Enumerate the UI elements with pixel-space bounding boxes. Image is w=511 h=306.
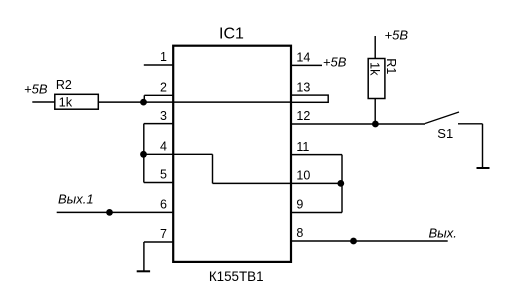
wire +5V down to R1 [374, 36, 376, 59]
switch S1 fixed contact [458, 123, 483, 125]
ground under pin 7 [137, 270, 150, 272]
junction dot on Вых.1 wire [106, 209, 113, 216]
wire R2 to pin 13 bar (through IC, junction with pin 2) [98, 101, 291, 103]
wire bracket joining pins 3,4,5 [143, 124, 145, 183]
svg-text:Вых.1: Вых.1 [58, 192, 94, 207]
svg-text:+5В: +5В [385, 27, 409, 42]
pin 2 [144, 81, 173, 96]
resistor R2 [55, 78, 99, 109]
svg-text:4: 4 [160, 140, 167, 154]
svg-text:S1: S1 [437, 126, 453, 141]
svg-text:R1: R1 [384, 58, 398, 74]
svg-text:1k: 1k [367, 62, 382, 76]
pin 6 [57, 198, 174, 213]
svg-text:+5В: +5В [24, 82, 48, 97]
svg-text:+5В: +5В [323, 54, 347, 69]
junction dot pins 9-10-11 [337, 180, 344, 187]
svg-text:11: 11 [296, 140, 309, 154]
svg-text:14: 14 [296, 51, 310, 65]
pin 11 [291, 140, 342, 155]
svg-text:6: 6 [160, 198, 167, 212]
wire S1 contact down to ground [482, 124, 484, 168]
wire R1 to pin 12 line [374, 99, 376, 125]
pin 10 [213, 169, 343, 184]
pin 8 [291, 226, 448, 241]
svg-text:Вых.: Вых. [429, 225, 457, 240]
pin 1 [144, 50, 173, 65]
svg-text:1k: 1k [59, 94, 73, 109]
pin 5 [144, 168, 173, 183]
svg-text:3: 3 [160, 109, 167, 123]
svg-text:2: 2 [160, 81, 167, 95]
pin 14 [291, 51, 322, 66]
switch S1 blade [425, 112, 459, 124]
wire jog pin4 to pin10 [212, 154, 214, 183]
svg-text:13: 13 [296, 80, 310, 94]
svg-text:1: 1 [160, 50, 167, 64]
junction dot pin2 / +5V rail [140, 99, 147, 106]
svg-text:IC1: IC1 [219, 26, 244, 43]
junction dot on Вых. wire [350, 238, 357, 245]
pin 4 [144, 140, 213, 155]
junction dot R1 / pin 12 [372, 121, 379, 128]
junction dot pins 3-4-5 [140, 151, 147, 158]
pin 3 [144, 109, 173, 124]
IC IC1 (К155ТВ1) body [173, 46, 291, 262]
pin 13 connector bar [291, 80, 328, 102]
wire pin2 jog down to +5V rail [143, 95, 145, 102]
wire pin 7 down [143, 242, 145, 271]
wire +5V to R2 [32, 101, 55, 103]
ground under S1 [477, 167, 490, 169]
resistor R1 [367, 58, 398, 98]
svg-text:8: 8 [296, 226, 303, 240]
pin 7 [144, 227, 173, 242]
svg-text:12: 12 [296, 109, 310, 123]
svg-text:7: 7 [160, 227, 167, 241]
svg-text:R2: R2 [56, 78, 72, 92]
svg-text:К155ТВ1: К155ТВ1 [209, 269, 264, 284]
pin 12 [291, 109, 425, 124]
pin 9 [291, 198, 342, 213]
svg-text:9: 9 [296, 198, 303, 212]
svg-text:10: 10 [296, 169, 310, 183]
svg-text:5: 5 [160, 168, 167, 182]
wire bracket joining pins 11,10,9 [341, 155, 343, 213]
